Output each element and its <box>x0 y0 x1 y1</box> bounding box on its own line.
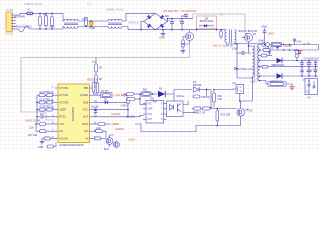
resistor R21 <box>203 107 211 110</box>
resistor R10 <box>93 130 96 132</box>
svg-text:OUT: OUT <box>147 119 153 121</box>
svg-text:L2: L2 <box>88 2 92 6</box>
resistor R32 <box>263 49 270 52</box>
svg-text:RGD: RGD <box>82 122 88 126</box>
wire N rail <box>30 28 64 30</box>
svg-text:LVSE3: LVSE3 <box>80 93 89 97</box>
capacitor C row5 <box>37 116 40 118</box>
svg-text:CON1: CON1 <box>6 8 14 12</box>
svg-text:(+)R16: (+)R16 <box>121 105 129 107</box>
choke L1 winding B <box>64 27 78 29</box>
transistor Q4 <box>237 109 245 117</box>
connector CON1 <box>6 12 13 32</box>
capacitor C5 bulk <box>171 19 173 22</box>
capacitor C23 <box>300 70 303 72</box>
resistor R36 <box>213 90 215 94</box>
transistor Q2 main <box>245 34 253 42</box>
svg-text:VCC: VCC <box>83 108 89 112</box>
resistor R31 boxed <box>142 92 152 96</box>
transformer T2 core <box>255 44 258 82</box>
capacitor CY yellow <box>90 22 93 25</box>
diode D9 <box>158 91 165 97</box>
svg-text:R7 4K7: R7 4K7 <box>101 91 109 93</box>
svg-text:KTOS2: KTOS2 <box>59 93 68 97</box>
bridge diode D1 <box>147 15 151 19</box>
wire r31 out <box>286 84 292 87</box>
capacitor CX2 <box>85 18 88 26</box>
wire sec tap 5v <box>260 75 276 77</box>
svg-text:KAB4L (T3 S): KAB4L (T3 S) <box>25 2 42 6</box>
capacitor C2B <box>193 95 200 98</box>
wire T1 sec out <box>235 43 265 44</box>
svg-text:KT3C: KT3C <box>59 115 66 119</box>
capacitor C21 <box>307 63 312 65</box>
resistor row8 <box>44 137 51 140</box>
transformer T2 secondary <box>258 45 260 81</box>
bridge diode D3 <box>147 24 151 28</box>
svg-text:(+) 5V: (+) 5V <box>303 41 310 45</box>
svg-text:C1A: C1A <box>29 126 34 129</box>
wire startup <box>95 58 97 65</box>
choke L3 core <box>108 23 122 24</box>
transformer T1 secondary <box>235 30 237 43</box>
svg-text:C39 1u: C39 1u <box>177 96 185 98</box>
svg-text:U51: U51 <box>150 98 155 100</box>
resistor R5 <box>182 40 185 47</box>
resistor R33 <box>124 93 127 95</box>
svg-text:PC817 C4: PC817 C4 <box>194 112 206 115</box>
svg-text:MC2: MC2 <box>104 149 110 151</box>
wire T2 pri cap branch <box>236 44 238 78</box>
net vcc vertical <box>127 98 130 104</box>
diode D5 <box>93 101 104 103</box>
resistor R7 <box>93 94 101 96</box>
capacitor C9 <box>93 109 128 111</box>
wire d9 out <box>166 90 193 95</box>
svg-text:C1A GND-OUT: C1A GND-OUT <box>304 57 320 60</box>
svg-text:C38: C38 <box>218 99 223 101</box>
resistor R6 <box>220 30 222 31</box>
svg-text:GND: GND <box>159 36 165 40</box>
wire sec tap aux <box>260 55 272 57</box>
svg-text:3SEP: 3SEP <box>59 108 66 112</box>
svg-text:CON1: CON1 <box>6 32 14 36</box>
svg-text:KTGR3: KTGR3 <box>59 100 69 104</box>
wire bridge minus <box>141 22 144 30</box>
transistor Q3 <box>106 138 113 145</box>
svg-text:A-P5uA(220VAC): A-P5uA(220VAC) <box>14 26 32 29</box>
bridge BD1 frame <box>144 13 168 29</box>
bridge diode D4 <box>160 24 164 28</box>
svg-text:R23 10R: R23 10R <box>221 114 231 117</box>
svg-text:+GD2: +GD2 <box>128 138 135 142</box>
optocoupler U3 body <box>167 101 184 117</box>
IC U2 pins <box>143 103 146 105</box>
svg-text:+HV GND-HOT: +HV GND-HOT <box>163 11 180 13</box>
rc network row 2 <box>37 101 39 103</box>
svg-text:C16: C16 <box>96 128 101 130</box>
resistor R1 discharge <box>51 13 53 16</box>
svg-text:(+)RGD: (+)RGD <box>115 128 124 131</box>
optocoupler U3 transistor <box>178 104 182 113</box>
svg-text:+12V: +12V <box>311 67 318 71</box>
resistor R3 startup <box>95 75 98 83</box>
choke L1 core <box>64 23 78 24</box>
wire to bridge bottom <box>122 27 156 30</box>
wire N from connector <box>16 28 19 30</box>
svg-text:UC3843AN/SG6105: UC3843AN/SG6105 <box>59 143 84 147</box>
svg-text:BAT54 diode: BAT54 diode <box>200 20 214 23</box>
svg-text:uCX: uCX <box>59 122 64 126</box>
svg-text:R1? 10R: R1? 10R <box>28 135 38 137</box>
svg-text:C40: C40 <box>124 96 129 98</box>
svg-text:VCC: VCC <box>147 114 152 116</box>
rc network row 1 <box>37 94 39 96</box>
net feedback box <box>21 44 190 112</box>
svg-text:1M: 1M <box>99 68 102 70</box>
IC U2 body <box>146 101 164 124</box>
wire row5 to IC2 <box>93 115 144 117</box>
choke L3 winding B <box>108 27 122 29</box>
wire sec tap 12v <box>260 60 276 62</box>
svg-text:R2 1K: R2 1K <box>47 92 54 94</box>
svg-text:C2? BAS_C07: C2? BAS_C07 <box>238 68 254 71</box>
svg-text:-HV GND-HOT: -HV GND-HOT <box>181 11 197 13</box>
regulator block U4 <box>305 79 318 95</box>
svg-text:(+)RGD: (+)RGD <box>111 123 120 126</box>
resistor R4b <box>96 83 99 93</box>
wire to U2 pin1 <box>140 103 147 106</box>
svg-text:SYOBL: SYOBL <box>59 86 69 90</box>
svg-text:560K: 560K <box>50 27 56 29</box>
svg-text:1.5uF: 1.5uF <box>232 48 239 51</box>
resistor R30 <box>272 42 282 46</box>
resistor R20 <box>194 107 202 110</box>
wire T1 pri bottom <box>227 43 238 45</box>
wire r34 bus <box>139 94 141 104</box>
svg-text:NILGM: NILGM <box>59 136 68 140</box>
transistor Q1 <box>186 33 194 41</box>
wire L rail top <box>33 12 63 14</box>
wire into choke L1 <box>63 13 64 21</box>
resistor R9 <box>93 123 98 125</box>
fuse F1 <box>27 12 34 15</box>
wire snubber legs <box>196 28 198 30</box>
svg-text:GND: GND <box>38 147 44 149</box>
capacitor C7 hot <box>185 14 187 15</box>
svg-text:(+)RGD: (+)RGD <box>111 112 120 116</box>
wire sec bottom <box>260 81 268 85</box>
wire right edge <box>318 45 320 51</box>
svg-text:RAS2 D1 4R: RAS2 D1 4R <box>26 119 41 123</box>
wire N squiggle <box>19 27 30 33</box>
resistor R2 startup <box>95 64 98 72</box>
svg-text:IN: IN <box>86 136 89 140</box>
capacitor C20 <box>300 63 303 65</box>
net feedback stub <box>21 112 55 120</box>
wire q1 bottom <box>182 47 184 50</box>
svg-text:+HV_G: +HV_G <box>213 44 222 48</box>
svg-text:BAT54A: BAT54A <box>193 84 202 87</box>
wire r31 to d9 <box>151 93 158 95</box>
wire out rail mid <box>260 66 269 68</box>
wire HV to snubber <box>193 14 245 34</box>
capacitor C26 <box>314 63 317 65</box>
diode D13 <box>277 73 283 79</box>
wire q5 sense <box>239 94 241 102</box>
svg-text:R36: R36 <box>218 96 223 98</box>
capacitor CX1 <box>45 13 47 15</box>
capacitor C28 <box>314 70 317 72</box>
svg-text:3.3uF: 3.3uF <box>258 41 265 43</box>
svg-text:GND: GND <box>262 25 268 28</box>
wire mid rails <box>78 20 108 22</box>
wire to bridge top <box>122 13 156 21</box>
wire fb row <box>192 108 237 110</box>
snubber box <box>197 16 217 28</box>
resistor R34 <box>127 98 135 101</box>
wire bottom feedback <box>135 124 196 132</box>
transformer T2 primary <box>252 46 254 77</box>
capacitor C6 bulk <box>181 19 183 22</box>
resistor R31 <box>268 82 286 86</box>
svg-text:uCX: uCX <box>83 115 88 119</box>
svg-text:+5VG: +5VG <box>268 33 274 36</box>
svg-text:R31: R31 <box>143 90 148 92</box>
capacitor C24 <box>307 70 312 72</box>
svg-text:GS: GS <box>59 129 63 133</box>
diode D15 red <box>298 51 301 54</box>
svg-text:SG6105DZ: SG6105DZ <box>71 106 75 121</box>
bridge diode D2 <box>160 15 164 19</box>
optocoupler U3 led <box>170 105 174 111</box>
svg-text:1M: 1M <box>99 79 102 81</box>
capacitor C27 <box>277 48 279 50</box>
svg-text:HRM6 S): HRM6 S) <box>129 21 140 25</box>
resistor R4a <box>92 82 95 92</box>
IC U1 body <box>58 84 90 143</box>
svg-text:C9 104: C9 104 <box>91 106 99 108</box>
net drive vertical <box>210 90 212 108</box>
rc network row 3 <box>37 109 39 111</box>
wire 5vsb row2 <box>260 49 318 51</box>
resistor R22 <box>216 109 218 111</box>
ground GND hot <box>162 30 164 33</box>
inductor L4 <box>296 49 298 51</box>
wire hot gnd rail <box>156 29 226 31</box>
svg-text:PC3: PC3 <box>248 111 253 113</box>
svg-text:R2 1K: R2 1K <box>47 99 54 101</box>
snubber diode D8 <box>199 25 204 27</box>
choke L3 winding A <box>108 19 122 21</box>
wire fb return <box>196 125 241 127</box>
svg-text:C30 331: C30 331 <box>265 48 274 50</box>
svg-text:R2 1K: R2 1K <box>47 107 54 109</box>
wire 5vsb row <box>260 44 262 46</box>
net left bus <box>36 95 38 124</box>
wire row6-7 bus <box>35 124 37 131</box>
svg-text:3DB: 3DB <box>83 100 88 104</box>
resistor row bottom <box>47 145 54 148</box>
svg-text:103M: 103M <box>89 28 95 30</box>
resistor R11 <box>93 137 95 139</box>
choke L1 winding A <box>64 19 78 21</box>
svg-text:+5V: +5V <box>307 96 312 100</box>
svg-text:5.0V: 5.0V <box>297 42 302 44</box>
varistor RV1 <box>39 13 41 16</box>
svg-text:C2B 104: C2B 104 <box>201 97 211 99</box>
svg-text:W210 GL: W210 GL <box>87 78 98 82</box>
capacitor C31 <box>294 41 296 45</box>
diode D12 <box>277 58 283 64</box>
wire startup bottom <box>95 82 97 83</box>
wire bridge plus <box>168 19 194 22</box>
svg-text:600 240V: 600 240V <box>14 15 25 19</box>
svg-text:T1: T1 <box>220 13 224 17</box>
wire opto out <box>183 101 188 105</box>
svg-text:CMP: CMP <box>147 109 153 111</box>
transformer T1 primary <box>225 30 227 43</box>
ground U1 left <box>41 138 43 141</box>
wire L from connector <box>16 13 27 15</box>
IC U1 pins left <box>55 87 58 89</box>
svg-text:3B3: 3B3 <box>83 86 88 90</box>
wire d9 to opto <box>173 94 175 101</box>
wire startup mid <box>95 72 97 75</box>
svg-text:GN: GN <box>84 129 88 133</box>
IC U1 pins right <box>90 87 93 89</box>
svg-text:+5VSB: +5VSB <box>284 44 292 48</box>
svg-text:KAB4L (T3 S): KAB4L (T3 S) <box>107 8 124 12</box>
svg-text:OSC: OSC <box>147 103 152 105</box>
transformer T1 core <box>230 30 232 44</box>
inductor L5 <box>262 43 266 47</box>
ground out earth <box>289 87 294 90</box>
